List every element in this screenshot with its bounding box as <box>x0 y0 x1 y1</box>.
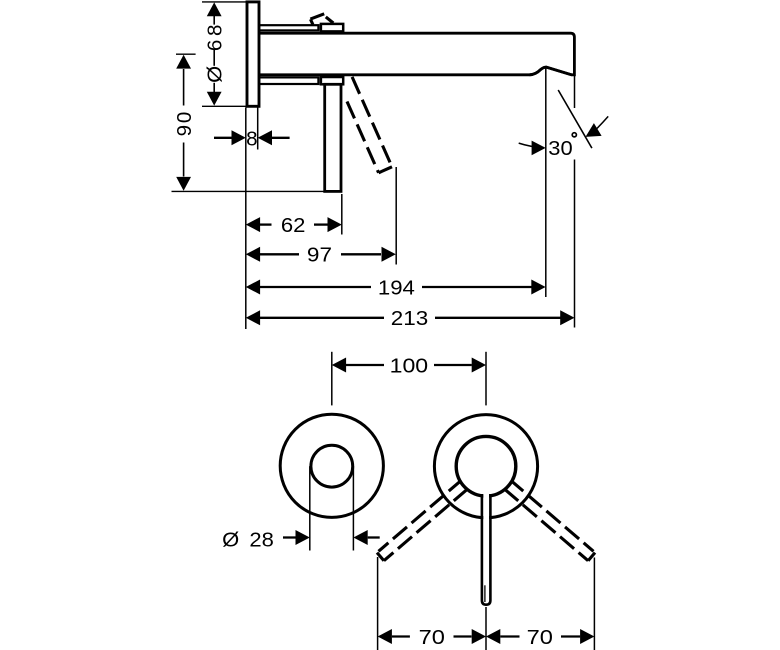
svg-text:62: 62 <box>281 214 306 237</box>
wire: extension line above left escutcheon center <box>331 352 333 406</box>
lower mounting stub (side view) <box>259 77 318 84</box>
handle escutcheon outer circle (front view) <box>434 415 537 518</box>
svg-text:30: 30 <box>548 137 572 160</box>
arrow right end of 100 <box>472 358 486 373</box>
30 degree stream direction line <box>558 90 592 148</box>
wire: extension line below left lever end <box>377 557 379 650</box>
dimension line D68 vertical <box>213 14 215 94</box>
handle escutcheon inner circle (front view) <box>456 436 516 496</box>
arrow right-pointing of D28 <box>296 530 310 545</box>
svg-text:Ø: Ø <box>203 66 226 83</box>
wire: extension line below handle shaft right edge <box>341 194 343 235</box>
arrow up of D68 <box>207 2 222 16</box>
svg-text:90: 90 <box>173 112 196 137</box>
svg-text:100: 100 <box>390 354 429 377</box>
wire: extension line at wall plate top <box>202 1 246 3</box>
arrow left end of 97 <box>246 247 260 262</box>
lever inner detail line <box>484 585 486 602</box>
arrow down of D68 <box>207 92 222 106</box>
wire: extension line below lever (center) <box>485 607 487 650</box>
leader right of 8 <box>272 137 290 139</box>
svg-text:28: 28 <box>249 529 274 552</box>
arrow left end of 62 <box>246 217 260 232</box>
wire: extension line from spout outlet notch <box>545 69 547 298</box>
wire: extension line below wall plate right edge <box>257 108 259 150</box>
svg-text:68: 68 <box>203 25 226 52</box>
wire: extension lines for D28 <box>309 466 311 550</box>
wire: extension line at wall plate bottom <box>202 105 246 107</box>
wire: extension line from spout right end <box>574 76 576 328</box>
arrow left end of 70 right <box>486 629 500 644</box>
spout outlet notch profile <box>530 67 572 75</box>
lower collar (side view) <box>321 77 343 84</box>
svg-text:Ø: Ø <box>222 529 239 552</box>
wire: extension line below wall plate left edge <box>245 108 247 330</box>
svg-text:97: 97 <box>307 244 332 267</box>
arrow left end of 194 <box>246 280 260 295</box>
node: spout centerline tick for 90 dimension <box>176 53 196 55</box>
arrow of 30 degree arc at stream line <box>586 123 602 137</box>
wall plate (side view) <box>247 2 259 106</box>
wire: extension line below right lever end <box>593 558 595 650</box>
lever handle in raised position (dashed, side view) <box>310 14 392 173</box>
spout upper collar (side view) <box>321 24 343 32</box>
handle shaft pointing down (side view) <box>325 84 341 191</box>
spout body (side view) <box>259 33 574 75</box>
svg-text:70: 70 <box>527 626 553 649</box>
wire: extension line at handle bottom for 90 dimension <box>172 190 325 192</box>
arrow right end of 194 <box>531 280 545 295</box>
value label D68 <box>203 25 226 83</box>
wire: extension line above handle escutcheon center <box>485 352 487 406</box>
arrow up of 90 <box>176 55 191 69</box>
arrow right end of 213 <box>560 310 574 325</box>
arrow right end of 62 <box>328 217 342 232</box>
lever swung right (dashed, front view) <box>504 481 595 561</box>
wire: leader from raised lever end <box>395 167 397 265</box>
arrow right end of 70 right <box>580 629 594 644</box>
arrow left-pointing of 8 <box>258 130 272 145</box>
arrow right end of 97 <box>382 247 396 262</box>
30 degree arc leader left with arrow <box>519 143 544 148</box>
svg-text:194: 194 <box>378 276 415 299</box>
arrow left end of 100 <box>332 358 346 373</box>
arrow left end of 213 <box>246 310 260 325</box>
leader left of 8 <box>214 137 232 139</box>
spout escutcheon outer circle (front view) <box>280 414 383 517</box>
arrow right-pointing of 8 <box>232 130 246 145</box>
arrow left-pointing of D28 <box>353 530 367 545</box>
lever pointing down (front view) <box>483 467 489 603</box>
30 degree arc leader right with arrow <box>595 116 608 130</box>
arrow down of 90 <box>176 177 191 191</box>
arrow of 30 degree arc at vertical reference <box>532 141 546 156</box>
svg-text:213: 213 <box>391 307 429 330</box>
svg-text:8: 8 <box>246 127 257 150</box>
svg-text:70: 70 <box>419 626 445 649</box>
white gap box over extension line for 30 degree label <box>547 108 580 160</box>
degree symbol of 30 <box>572 133 576 137</box>
spout escutcheon inner circle (front view) <box>311 445 353 487</box>
arrow left end of 70 left <box>378 629 392 644</box>
arrow right end of 70 left <box>472 629 486 644</box>
dimension line 90 vertical <box>183 69 185 177</box>
spout upper mounting stub (side view) <box>259 25 318 30</box>
lever swung left (dashed, front view) <box>377 481 468 561</box>
